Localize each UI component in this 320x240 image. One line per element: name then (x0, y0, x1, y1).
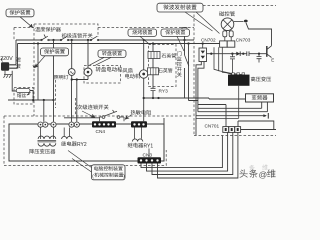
fan motor label (123, 68, 133, 73)
connector CN702 (diode pack) (199, 48, 207, 62)
wire: lower distribution line (8, 99, 54, 101)
magnetron label (219, 11, 235, 16)
arrowhead on dashed vertical (32, 65, 35, 68)
svg-text:@: @ (259, 170, 268, 180)
wire: arrowed service line (196, 115, 266, 117)
svg-text:220V: 220V (0, 56, 13, 62)
step-down transformer (41, 127, 54, 139)
dashed boundary: right module bottom (194, 135, 276, 137)
relay RY3 contact (151, 88, 156, 90)
callout: protection device (top-left) (6, 9, 34, 17)
dashed segment near fuse column (55, 80, 57, 108)
dashed boundary: long left vertical (33, 24, 35, 116)
wire: live riser from plug (15, 40, 17, 65)
svg-text:CN703: CN703 (236, 37, 251, 42)
wire: CN701 top links (238, 121, 276, 130)
junction dots on neutral bus (37, 42, 39, 44)
relay RY2 label (61, 141, 77, 146)
callout: protection device (monitor) (161, 29, 190, 36)
wires from CN702 down (196, 62, 204, 136)
watermark (240, 169, 276, 179)
wire: drop from plug to fuse line (12, 71, 16, 91)
svg-text:RY1: RY1 (144, 143, 154, 149)
wire: monitor to inverter (144, 98, 246, 99)
door monitor switch label (vertical) (177, 51, 181, 56)
relay RY1 coil (135, 128, 142, 139)
dashed segment right of secondary interlock (75, 98, 77, 116)
magnetron (221, 18, 234, 31)
connector block (relay RY1 header) (131, 121, 147, 127)
HV capacitor to transformer (230, 54, 235, 73)
svg-text:E: E (271, 58, 274, 63)
wire: drops to control board terminals (44, 40, 54, 122)
primary interlock switch 1 (61, 36, 67, 40)
control board outline (9, 124, 164, 161)
svg-text:RY3: RY3 (159, 89, 169, 95)
magnetron antenna (234, 21, 244, 23)
connector CN3 (148, 149, 150, 158)
thermistor label + arrow (131, 110, 151, 115)
HV line (207, 53, 262, 55)
magnetron filament pins (223, 31, 227, 37)
board terminals (38, 122, 43, 127)
temperature protector switch (42, 35, 48, 41)
callout: microwave emission device (157, 3, 203, 12)
connector CN701 (223, 127, 229, 133)
wire: mid horizontal runs (189, 101, 268, 127)
plug prongs (9, 65, 17, 68)
dashed boundary: inner interlock box (34, 24, 194, 37)
dashed boundary: right module vertical (193, 6, 195, 136)
monitor switch wires (185, 40, 189, 101)
callout: computer control unit (92, 165, 126, 180)
callout: protection device (left mid) (41, 48, 69, 56)
callout: grill device (128, 29, 157, 36)
step-down transformer label (29, 149, 55, 154)
svg-text:CN4: CN4 (96, 129, 106, 135)
quartz tube chain (152, 44, 154, 99)
dashed boundary: control unit left/bottom (4, 116, 166, 166)
monitor switch sensor box (182, 28, 187, 33)
mains plug (2, 58, 3, 62)
temperature protector text (35, 27, 61, 32)
pointer: secondary interlock label to switch (82, 111, 95, 117)
svg-text:CN702: CN702 (201, 37, 216, 42)
secondary interlock label (77, 105, 108, 110)
wire: live bus (top) (16, 39, 194, 41)
dashed boundary: control unit top (4, 115, 193, 117)
monitor switch lever (185, 55, 189, 66)
lamp label (54, 75, 68, 80)
ground symbol (3, 71, 12, 78)
svg-text:RY2: RY2 (77, 142, 87, 148)
magnetron cathode symbol (266, 46, 268, 57)
quartz tube 2 (148, 68, 159, 75)
callout: turntable device (98, 50, 126, 57)
HV diode (236, 52, 240, 56)
junction dots on live bus (52, 39, 54, 41)
wire: drop x38 from neutral (37, 44, 39, 101)
dashed boundary: right module top (203, 5, 276, 7)
wires: CN3 to CN701 (nested) (141, 132, 238, 178)
connector CN4 (92, 121, 116, 127)
wire: lamp branch (72, 40, 89, 122)
quartz tube 1 (148, 52, 160, 59)
turntable motor (87, 40, 89, 68)
HV transformer feeds (214, 47, 242, 74)
primary interlock switch 2 (91, 36, 97, 40)
wire: feed to secondary interlock (64, 117, 100, 119)
dashed box: turntable motor unit (84, 66, 121, 84)
fan motor (143, 40, 145, 121)
wire: neutral bus (18, 43, 220, 45)
HV capacitor (right) (257, 54, 262, 63)
primary interlock text (62, 33, 93, 38)
HV transformer label (251, 77, 271, 82)
lamp (68, 69, 75, 76)
connector CN703 (220, 41, 228, 47)
filter label (vertical) (16, 57, 21, 62)
fuse (16, 88, 30, 92)
wire: anode return loop (246, 23, 272, 46)
turntable motor label (96, 67, 123, 72)
inverter box (246, 94, 274, 102)
wire: transformer return (196, 86, 239, 119)
fuse label + arrow (17, 93, 26, 97)
HV transformer (black box) (232, 73, 235, 75)
dashed box: fuse (14, 88, 33, 105)
relay RY1 label (128, 143, 144, 148)
secondary interlock switch (102, 116, 105, 119)
dashed boundary: oven top-left corner (14, 28, 34, 41)
wire: neutral riser from plug (17, 44, 19, 69)
dashed box: quartz heater (grill) unit (149, 45, 177, 87)
svg-text:CN701: CN701 (205, 123, 220, 128)
relay RY2 coil (64, 128, 69, 137)
HV capacitor (series) (247, 51, 249, 56)
